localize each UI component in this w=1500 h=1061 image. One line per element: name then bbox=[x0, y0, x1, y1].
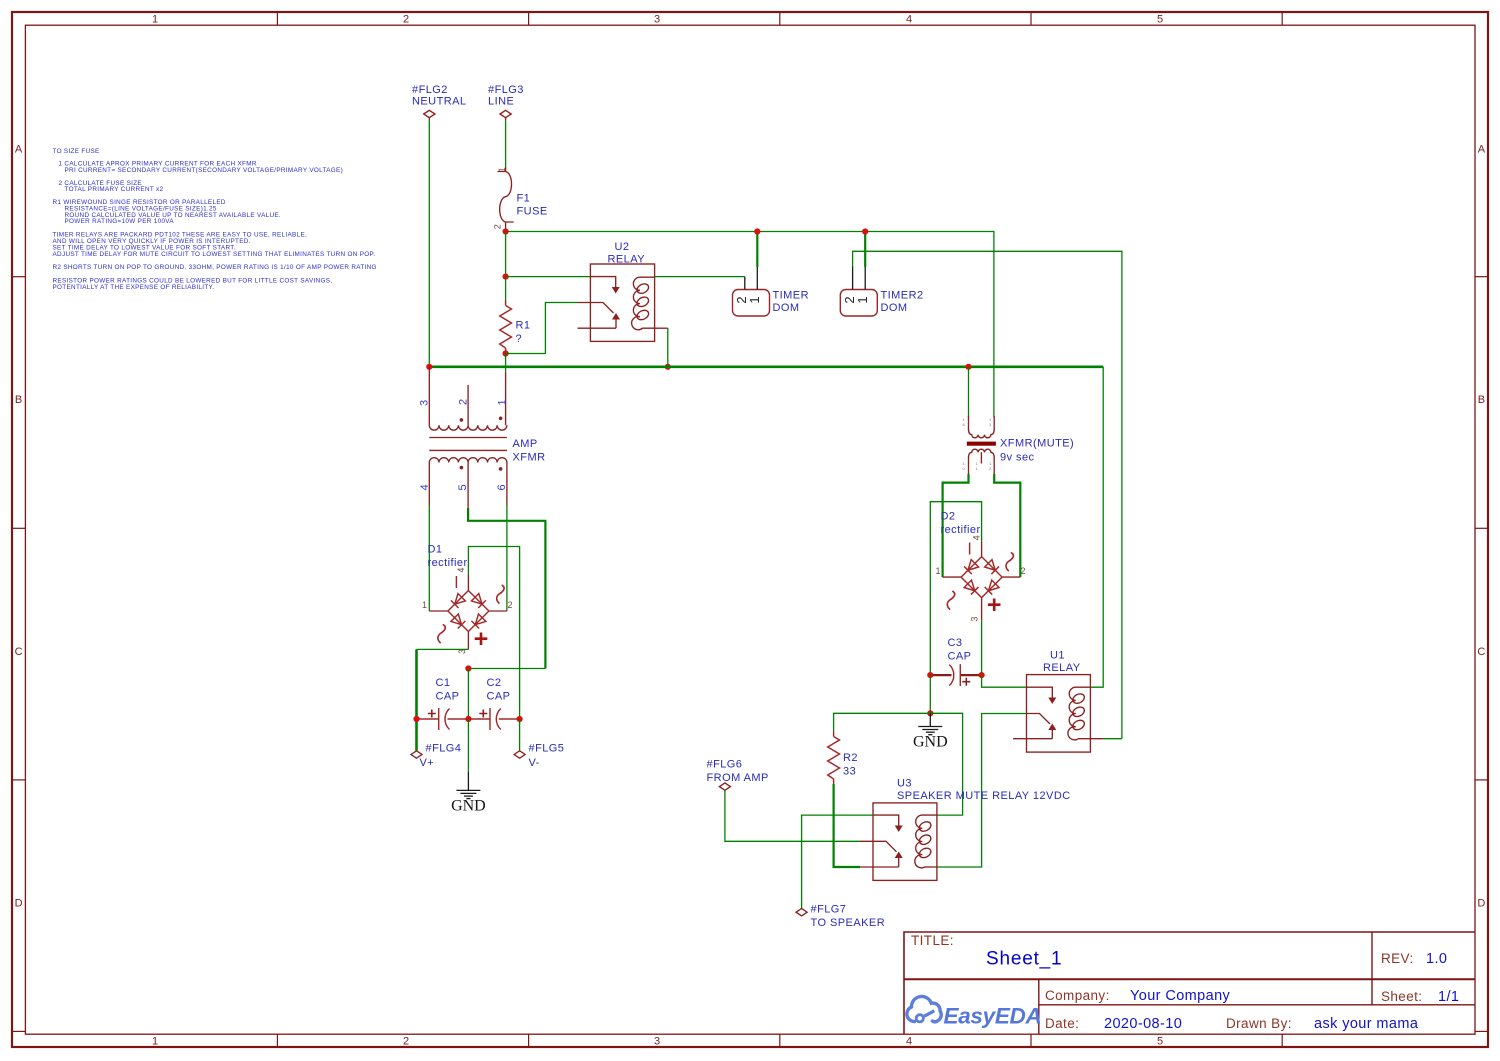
svg-text:Company:: Company: bbox=[1045, 988, 1110, 1003]
svg-text:2: 2 bbox=[403, 14, 409, 26]
transformer XFMR(MUTE) bbox=[963, 416, 1075, 474]
EasyEDA logo bbox=[907, 996, 1042, 1028]
flag diamond FLG7 bbox=[796, 909, 807, 916]
svg-text:A: A bbox=[15, 144, 23, 156]
junction bus at mute transformer bbox=[965, 364, 971, 370]
capacitor C2 bbox=[479, 677, 510, 730]
wire cap rail bbox=[417, 718, 439, 720]
svg-text:XFMR: XFMR bbox=[513, 452, 546, 464]
U1 coil bbox=[1068, 687, 1103, 740]
resistor R1 bbox=[500, 300, 531, 354]
junction C3 left bbox=[927, 672, 933, 678]
svg-text:XFMR(MUTE): XFMR(MUTE) bbox=[1000, 438, 1074, 450]
wire XFMR pin6 to D1 pin2 bbox=[506, 505, 508, 611]
svg-text:2: 2 bbox=[457, 399, 469, 405]
D1 pin 3 lead bbox=[467, 632, 469, 650]
svg-text:FUSE: FUSE bbox=[517, 206, 548, 218]
wire TIMER2 pin1 to bus bbox=[864, 232, 866, 268]
U2 contact pin bottom bbox=[578, 327, 617, 329]
svg-text:SPEAKER MUTE RELAY 12VDC: SPEAKER MUTE RELAY 12VDC bbox=[897, 790, 1071, 802]
TIMER body bbox=[733, 290, 770, 317]
net flag #FLG3 LINE bbox=[488, 84, 524, 120]
wire U1 coil bottom to timer2 wire bbox=[1103, 738, 1122, 740]
wire U1 common to U3 coil bottom bbox=[937, 714, 1027, 868]
fuse F1 bbox=[492, 167, 547, 229]
svg-text:4: 4 bbox=[419, 484, 431, 490]
TIMER pin 1 stub bbox=[756, 266, 758, 290]
phase dot secondary a bbox=[460, 466, 464, 470]
wire fuse to junction bbox=[505, 228, 507, 232]
svg-text:9v sec: 9v sec bbox=[1000, 452, 1035, 464]
svg-text:POWER RATING=10W PER 100VA: POWER RATING=10W PER 100VA bbox=[65, 218, 175, 225]
wire center rail to ground bbox=[467, 719, 469, 772]
D2 diamond bbox=[961, 557, 1002, 598]
net flag #FLG7 TO SPEAKER bbox=[796, 904, 885, 930]
timer TIMER DOM bbox=[733, 266, 809, 316]
TIMER2 pin 1 stub bbox=[864, 266, 866, 290]
D2 pin 1 lead bbox=[943, 576, 962, 578]
U3 contact pin top bbox=[873, 815, 899, 826]
svg-text:R2 SHORTS TURN ON POP TO GROUN: R2 SHORTS TURN ON POP TO GROUND. 33OHM, … bbox=[53, 264, 377, 271]
svg-text:NEUTRAL: NEUTRAL bbox=[412, 96, 467, 108]
wire TIMER pin1 to bus bbox=[756, 232, 758, 268]
svg-text:1: 1 bbox=[936, 566, 941, 576]
relay U2 bbox=[578, 241, 668, 341]
wire R2 bottom to U3 lower pin bbox=[834, 784, 860, 867]
svg-text:C: C bbox=[15, 646, 23, 658]
wire ground node to R2 bbox=[834, 713, 931, 731]
svg-text:5: 5 bbox=[1157, 14, 1163, 26]
D2 diode d bbox=[985, 580, 1000, 595]
U3 coil bbox=[915, 815, 937, 868]
junction bus at XFMR pin3 bbox=[426, 364, 432, 370]
svg-text:#FLG6: #FLG6 bbox=[707, 759, 743, 771]
svg-text:2: 2 bbox=[403, 1036, 409, 1048]
svg-text:1: 1 bbox=[976, 466, 979, 471]
svg-text:TIMER2: TIMER2 bbox=[881, 290, 924, 302]
svg-text:#FLG4: #FLG4 bbox=[426, 743, 462, 755]
D1 diamond bbox=[448, 591, 489, 632]
svg-text:GND: GND bbox=[913, 734, 948, 751]
svg-text:Date:: Date: bbox=[1045, 1016, 1079, 1031]
resistor R2 bbox=[828, 732, 858, 785]
XFMR secondary winding bbox=[429, 458, 507, 463]
wire D1 plus to V+ rail bbox=[417, 648, 469, 650]
wire XFMR pin4 to D1 pin1 bbox=[428, 505, 430, 611]
svg-text:3: 3 bbox=[654, 14, 660, 26]
XFMR core line 2 bbox=[429, 449, 507, 451]
phase dot primary b bbox=[499, 417, 503, 421]
svg-text:CAP: CAP bbox=[436, 691, 460, 703]
U3 switch common bbox=[860, 841, 897, 852]
wire D1 minus to Vminus rail bbox=[468, 547, 519, 720]
svg-text:ask your mama: ask your mama bbox=[1314, 1016, 1419, 1032]
wire LINE flag to fuse bbox=[505, 120, 507, 167]
svg-text:LINE: LINE bbox=[488, 96, 514, 108]
junction V+ at cap rail bbox=[413, 716, 419, 722]
svg-text:2020-08-10: 2020-08-10 bbox=[1104, 1016, 1182, 1032]
D1 pin 1 lead bbox=[429, 610, 448, 612]
D2 minus mark bbox=[969, 543, 971, 555]
svg-text:5: 5 bbox=[457, 484, 469, 490]
timer TIMER2 DOM bbox=[840, 266, 923, 316]
svg-text:A: A bbox=[1478, 144, 1486, 156]
svg-text:GND: GND bbox=[451, 798, 486, 815]
D1 pin 4 lead bbox=[467, 575, 469, 591]
flag diamond FLG2 bbox=[424, 110, 435, 117]
svg-text:R1: R1 bbox=[516, 320, 531, 332]
wire fuse junction down to R1 bbox=[505, 232, 507, 301]
U3 contact pin bottom bbox=[860, 866, 899, 868]
D1 diode c bbox=[451, 614, 466, 629]
wire D2 minus to C3 left bbox=[930, 502, 981, 675]
XFMR(MUTE) primary winding bbox=[969, 429, 995, 438]
svg-text:2: 2 bbox=[1021, 566, 1026, 576]
junction fuse output bbox=[503, 228, 509, 234]
wire C3 right to U1 switch pin bbox=[982, 675, 1027, 687]
phase dot primary a bbox=[460, 418, 464, 422]
svg-text:TO SPEAKER: TO SPEAKER bbox=[811, 917, 886, 929]
svg-text:D1: D1 bbox=[428, 544, 443, 556]
TIMER2 body bbox=[840, 290, 877, 317]
wire D2 plus to C3 right bbox=[981, 621, 983, 675]
wire main bus bbox=[429, 365, 1103, 368]
XFMR pin 3 lead bbox=[428, 367, 430, 426]
rectifier D2 bbox=[936, 511, 1026, 622]
svg-text:Your Company: Your Company bbox=[1130, 988, 1231, 1004]
wire R1 bottom to XFMR pin1 bbox=[505, 354, 507, 373]
U2 coil bbox=[632, 277, 655, 330]
XFMR(MUTE) center tap bbox=[980, 452, 982, 463]
svg-text:F1: F1 bbox=[517, 193, 531, 205]
wire FLG7 to U3 top pin bbox=[802, 815, 873, 908]
svg-text:4: 4 bbox=[972, 535, 982, 540]
svg-text:3: 3 bbox=[970, 617, 980, 622]
wire ground node to U3 coil top bbox=[930, 713, 962, 815]
relay U1 bbox=[1013, 650, 1103, 753]
U2 switch common bbox=[578, 303, 614, 314]
svg-text:D: D bbox=[1477, 898, 1485, 910]
D2 ac mark b bbox=[947, 591, 954, 609]
svg-text:5: 5 bbox=[1157, 1036, 1163, 1048]
junction ground node bbox=[927, 710, 933, 716]
svg-text:PRI CURRENT= SECONDARY CURRENT: PRI CURRENT= SECONDARY CURRENT(SECONDARY… bbox=[65, 167, 344, 174]
net flag #FLG5 V- bbox=[514, 743, 564, 770]
svg-text:C: C bbox=[1477, 646, 1485, 658]
svg-text:CAP: CAP bbox=[948, 651, 972, 663]
svg-text:B: B bbox=[1478, 394, 1485, 406]
svg-text:R2: R2 bbox=[843, 752, 858, 764]
D1 diode b bbox=[471, 593, 486, 608]
svg-text:D2: D2 bbox=[941, 511, 956, 523]
U1 contact pin bottom bbox=[1013, 738, 1052, 740]
rectifier D1 bbox=[422, 544, 513, 655]
svg-text:1.0: 1.0 bbox=[1426, 951, 1447, 967]
svg-text:FROM AMP: FROM AMP bbox=[707, 772, 769, 784]
TIMER pin 2 stub bbox=[744, 277, 746, 290]
svg-text:DOM: DOM bbox=[773, 302, 800, 314]
wire U2 coil top to TIMER pin2 bbox=[655, 276, 745, 278]
D1 diode d bbox=[471, 614, 486, 629]
wire R1 bottom to U2 common bbox=[506, 303, 578, 354]
D2 pin 3 lead bbox=[981, 598, 983, 621]
svg-text:2: 2 bbox=[508, 600, 513, 610]
XFMR primary winding bbox=[429, 425, 507, 430]
svg-text:3: 3 bbox=[419, 400, 431, 406]
D1 ac mark a bbox=[497, 585, 504, 603]
svg-text:?: ? bbox=[516, 333, 523, 345]
D1 ac mark b bbox=[438, 625, 445, 643]
junction TIMER pin1 bbox=[754, 228, 760, 234]
U2 body box bbox=[590, 264, 654, 341]
title block bbox=[904, 932, 1475, 1034]
wire bus to mute transformer primary left bbox=[968, 367, 970, 418]
D1 pin 2 lead bbox=[489, 610, 507, 612]
net flag #FLG2 NEUTRAL bbox=[412, 84, 467, 120]
svg-text:33: 33 bbox=[843, 766, 856, 778]
svg-text:#FLG2: #FLG2 bbox=[412, 84, 448, 96]
ground GND left bbox=[451, 772, 486, 815]
junction R1 top bbox=[503, 274, 509, 280]
svg-text:Sheet_1: Sheet_1 bbox=[986, 949, 1062, 970]
transformer AMP XFMR bbox=[419, 367, 546, 508]
svg-text:6: 6 bbox=[496, 484, 508, 490]
svg-text:4: 4 bbox=[456, 568, 466, 573]
svg-text:C3: C3 bbox=[948, 637, 963, 649]
relay U3 SPEAKER MUTE RELAY 12VDC bbox=[860, 778, 1071, 881]
junction center rail corner bbox=[465, 665, 471, 671]
wire NEUTRAL flag to bus bbox=[428, 120, 430, 367]
phase dot secondary b bbox=[499, 467, 503, 471]
wire mute secondary right to D2 pin2 bbox=[994, 474, 1020, 577]
D2 pin 2 lead bbox=[1002, 576, 1020, 578]
svg-text:ADJUST TIME DELAY FOR MUTE CIR: ADJUST TIME DELAY FOR MUTE CIRCUIT TO LO… bbox=[53, 251, 376, 258]
ground GND right bbox=[913, 713, 948, 750]
XFMR(MUTE) primary right pin bbox=[993, 416, 995, 430]
D2 diode b bbox=[984, 559, 999, 574]
svg-text:U1: U1 bbox=[1050, 650, 1065, 662]
wire C3 left down to ground node bbox=[929, 675, 931, 713]
svg-text:B: B bbox=[15, 394, 22, 406]
D1 diode a bbox=[451, 593, 466, 608]
svg-text:1: 1 bbox=[747, 296, 762, 303]
wire XFMR pin5 to center rail bbox=[468, 508, 545, 669]
D2 plus mark bbox=[988, 599, 1001, 612]
junction U2 coil at bus bbox=[665, 364, 671, 370]
svg-text:1: 1 bbox=[152, 14, 158, 26]
svg-text:CAP: CAP bbox=[487, 691, 511, 703]
D2 pin 4 lead bbox=[981, 542, 983, 557]
wire FLG6 to U3 common bbox=[725, 790, 860, 841]
svg-text:C1: C1 bbox=[436, 677, 451, 689]
svg-text:1: 1 bbox=[496, 399, 508, 405]
wire TIMER2 pin2 to U1 coil bottom bbox=[853, 251, 1122, 738]
net flag #FLG6 FROM AMP bbox=[707, 759, 769, 791]
svg-text:V+: V+ bbox=[420, 757, 435, 769]
XFMR pin 2 lead bbox=[467, 385, 469, 425]
svg-text:2: 2 bbox=[492, 224, 502, 229]
junction C3 right bbox=[979, 672, 985, 678]
svg-text:TO SIZE FUSE: TO SIZE FUSE bbox=[53, 148, 100, 155]
wire mute secondary left to D2 pin1 bbox=[943, 474, 969, 577]
junction center at cap rail bbox=[465, 716, 471, 722]
junction R1 bottom bbox=[503, 350, 509, 356]
svg-text:Drawn By:: Drawn By: bbox=[1226, 1016, 1292, 1031]
svg-text:1: 1 bbox=[152, 1036, 158, 1048]
svg-text:4: 4 bbox=[906, 14, 912, 26]
svg-text:0: 0 bbox=[963, 466, 966, 471]
junction V- at cap rail bbox=[517, 716, 523, 722]
svg-text:AMP: AMP bbox=[513, 438, 538, 450]
D1 minus mark bbox=[455, 576, 457, 588]
wire center rail to cap row bbox=[467, 669, 469, 720]
XFMR pin 5 lead bbox=[467, 463, 469, 509]
svg-text:U2: U2 bbox=[615, 241, 630, 253]
wire top bus LINE net bbox=[506, 232, 994, 418]
svg-text:RELAY: RELAY bbox=[1043, 662, 1081, 674]
svg-text:rectifier: rectifier bbox=[941, 524, 981, 536]
svg-text:#FLG3: #FLG3 bbox=[488, 84, 524, 96]
svg-text:3: 3 bbox=[654, 1036, 660, 1048]
svg-text:V-: V- bbox=[529, 757, 540, 769]
D2 ac mark a bbox=[1006, 553, 1013, 571]
XFMR(MUTE) secondary winding bbox=[969, 449, 995, 458]
wire R1 top junction to U2 pin bbox=[506, 276, 591, 278]
svg-text:4: 4 bbox=[906, 1036, 912, 1048]
svg-text:TITLE:: TITLE: bbox=[911, 933, 954, 948]
svg-text:1: 1 bbox=[422, 600, 427, 610]
svg-text:3: 3 bbox=[989, 422, 992, 427]
wire V+ vertical bbox=[415, 649, 418, 750]
junction TIMER2 pin1 bbox=[862, 228, 868, 234]
XFMR core line 1 bbox=[429, 437, 507, 439]
capacitor C1 bbox=[428, 677, 460, 730]
XFMR pin 1 lead bbox=[505, 372, 507, 425]
svg-text:#FLG7: #FLG7 bbox=[811, 904, 847, 916]
XFMR(MUTE) primary left pin bbox=[968, 416, 970, 430]
XFMR(MUTE) core bar bbox=[967, 442, 996, 446]
svg-text:POTENTIALLY AT THE EXPENSE OF: POTENTIALLY AT THE EXPENSE OF RELIABILIT… bbox=[53, 284, 215, 291]
svg-text:U3: U3 bbox=[897, 778, 912, 790]
wire U2 coil bottom to bus bbox=[667, 328, 669, 367]
wire V- to flag bbox=[519, 719, 521, 751]
svg-text:D: D bbox=[15, 898, 23, 910]
U1 contact pin top bbox=[1027, 687, 1053, 698]
svg-text:REV:: REV: bbox=[1381, 951, 1414, 966]
XFMR(MUTE) secondary right pin bbox=[993, 458, 995, 475]
flag diamond FLG3 bbox=[500, 110, 511, 117]
svg-text:1: 1 bbox=[855, 296, 870, 303]
svg-text:6: 6 bbox=[963, 422, 966, 427]
D1 plus mark bbox=[475, 633, 488, 646]
TIMER2 pin 2 stub bbox=[852, 266, 854, 290]
svg-text:rectifier: rectifier bbox=[428, 557, 468, 569]
U1 switch common bbox=[1027, 714, 1051, 725]
wire bus corner down to U1 coil top bbox=[1090, 367, 1103, 687]
svg-text:Sheet:: Sheet: bbox=[1381, 989, 1422, 1004]
U2 contact pin top bbox=[590, 277, 615, 288]
svg-text:#FLG5: #FLG5 bbox=[529, 743, 565, 755]
svg-text:1: 1 bbox=[497, 167, 507, 172]
flag diamond FLG6 bbox=[719, 783, 730, 790]
U1 body box bbox=[1027, 675, 1091, 753]
U3 body box bbox=[873, 803, 937, 881]
svg-text:DOM: DOM bbox=[881, 302, 908, 314]
XFMR(MUTE) secondary left pin bbox=[968, 458, 970, 475]
svg-text:EasyEDA: EasyEDA bbox=[944, 1004, 1042, 1029]
XFMR pin 4 lead bbox=[428, 463, 430, 506]
svg-text:TOTAL PRIMARY CURRENT x2: TOTAL PRIMARY CURRENT x2 bbox=[65, 186, 164, 193]
D2 diode a bbox=[964, 559, 979, 574]
net flag #FLG4 V+ bbox=[411, 743, 461, 770]
svg-text:2: 2 bbox=[989, 466, 992, 471]
svg-text:TIMER: TIMER bbox=[773, 290, 809, 302]
D2 diode c bbox=[964, 580, 979, 595]
svg-text:C2: C2 bbox=[487, 677, 502, 689]
notes text block bbox=[53, 148, 377, 291]
svg-text:1/1: 1/1 bbox=[1438, 989, 1459, 1005]
capacitor C3 bbox=[930, 637, 981, 686]
XFMR pin 6 lead bbox=[506, 463, 508, 506]
